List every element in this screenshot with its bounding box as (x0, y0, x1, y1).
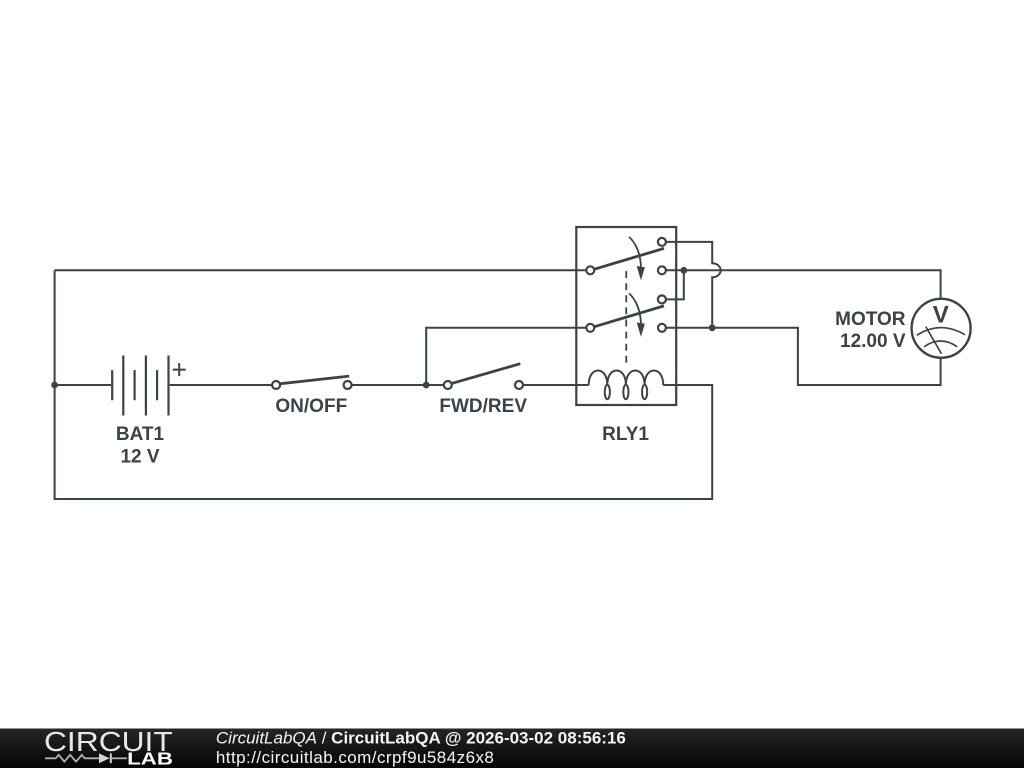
relay contact A (658, 238, 666, 246)
relay dashed actuation line (625, 271, 627, 367)
voltmeter MOTOR body (912, 299, 971, 358)
svg-text:ON/OFF: ON/OFF (275, 396, 347, 417)
svg-text:RLY1: RLY1 (602, 424, 649, 445)
wire: junction up and over to relay pole 2 (426, 328, 586, 385)
svg-text:http://circuitlab.com/crpf9u58: http://circuitlab.com/crpf9u584z6x8 (216, 748, 494, 767)
svg-text:MOTOR: MOTOR (835, 309, 906, 330)
node: junction dot feeding relay pole 2 (423, 382, 430, 389)
svg-text:12.00 V: 12.00 V (840, 331, 906, 352)
wire: top horizontal from left rail to relay pole 1 (55, 269, 587, 271)
wire: left vertical + bottom loop + coil return (55, 270, 713, 499)
relay arrow 2 (629, 293, 645, 336)
logo resistor zigzag (45, 755, 99, 762)
node: junction dot at D (709, 324, 716, 331)
logo diode (99, 753, 127, 763)
footer bar (0, 729, 1024, 768)
relay pole terminal 1 (586, 266, 594, 274)
switch SW2 FWD/REV (444, 364, 523, 389)
svg-text:CircuitLabQA / CircuitLabQA @: CircuitLabQA / CircuitLabQA @ 2026-03-02… (216, 729, 626, 748)
wire: contact B to voltmeter top (666, 270, 941, 298)
wire: contact D to voltmeter bottom (666, 328, 941, 385)
svg-text:BAT1: BAT1 (116, 424, 165, 445)
relay RLY1 box (576, 227, 676, 405)
relay pole terminal 2 (586, 324, 594, 332)
svg-text:LAB: LAB (127, 749, 173, 768)
battery plus sign (173, 363, 186, 376)
switch SW1 ON/OFF (272, 376, 352, 389)
relay coil (589, 370, 664, 399)
svg-text:12 V: 12 V (120, 446, 159, 467)
node: junction dot at B crosslink (680, 267, 687, 274)
battery BAT1 (112, 356, 168, 416)
node: junction dot on left rail (51, 382, 58, 389)
wire: main horizontal battery rail segments (55, 384, 589, 386)
voltmeter scale arc 2 (924, 341, 957, 347)
wire: crosslink B down to contact C (666, 270, 684, 299)
relay switch 1 lever (594, 248, 664, 269)
relay contact C (658, 295, 666, 303)
relay contact B (658, 266, 666, 274)
voltmeter needle (926, 327, 942, 354)
voltmeter scale arc 1 (917, 328, 965, 336)
svg-text:FWD/REV: FWD/REV (439, 396, 527, 417)
relay arrow 1 (629, 237, 645, 280)
wire: contact A over and down with hop to D node (666, 242, 721, 325)
relay contact D (658, 324, 666, 332)
svg-text:V: V (933, 301, 949, 328)
relay switch 2 lever (594, 306, 664, 327)
